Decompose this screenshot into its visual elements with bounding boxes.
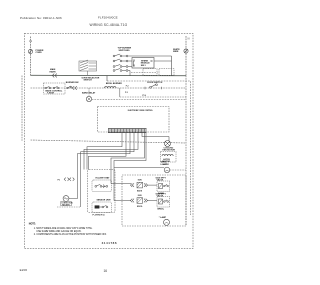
wire igniter row 2 to valve [148, 200, 158, 202]
wire L1 drop [30, 37, 32, 76]
right oven enclosure dashed [122, 175, 186, 226]
rail tick b [161, 87, 163, 89]
wire right link y97 [120, 96, 186, 98]
svg-text:P6: P6 [58, 180, 60, 182]
svg-text:T-STAT: T-STAT [47, 92, 55, 95]
svg-text:WIRING SC-48/4A-T1G: WIRING SC-48/4A-T1G [90, 23, 128, 27]
svg-text:BROIL: BROIL [137, 206, 143, 208]
wire fan motor drop [168, 137, 170, 141]
wire below spark module [131, 72, 158, 74]
svg-text:IGN: IGN [138, 180, 142, 182]
svg-text:N: N [188, 38, 190, 41]
svg-text:E206: E206 [20, 268, 28, 272]
electronic oven control box [98, 107, 170, 133]
wire burner row link [133, 61, 135, 67]
svg-text:IGN: IGN [138, 195, 142, 197]
svg-text:VALVE: VALVE [157, 194, 164, 197]
bake valve contacts [164, 184, 169, 186]
oven selector switch S1 [79, 60, 97, 76]
relay box A [143, 69, 157, 76]
wire spark module to neutral [154, 60, 172, 62]
svg-text:FAN MTR: FAN MTR [62, 204, 70, 207]
igniter row 1 connector left [131, 183, 135, 187]
svg-text:P-3 RTD P-4: P-3 RTD P-4 [93, 213, 106, 216]
igniter row 2 wire [114, 200, 131, 202]
svg-text:BURNER SW: BURNER SW [66, 82, 79, 84]
svg-text:FAN MOTOR: FAN MOTOR [163, 149, 176, 152]
wire main bus L1 [31, 74, 187, 77]
upper sub box thermostat [92, 180, 112, 192]
thermostat contacts [95, 184, 108, 188]
svg-text:DOOR SWITCH: DOOR SWITCH [147, 82, 163, 84]
svg-text:16: 16 [104, 269, 108, 273]
strain relief L1 [28, 49, 32, 53]
svg-text:SM-1: SM-1 [141, 65, 147, 67]
oven control dashed box [44, 83, 66, 94]
svg-text:Publication No: 09012-1-N06: Publication No: 09012-1-N06 [20, 16, 62, 20]
wire N drop [185, 36, 187, 76]
left appliance enclosure dashed [88, 170, 116, 213]
wire oven light feed [114, 167, 164, 169]
harness wire D [89, 133, 127, 170]
sensor resistor dark [95, 205, 100, 208]
cooling fan motor M2 [165, 141, 171, 147]
strain relief N [184, 49, 188, 53]
connector comb of EOC [108, 129, 147, 133]
svg-text:FLF2040/0CE: FLF2040/0CE [98, 15, 118, 19]
svg-text:P-5: P-5 [125, 92, 128, 94]
label convection fan motor [61, 201, 72, 205]
wire rail to clock motor [88, 88, 90, 96]
igniter row 2 connector left [131, 199, 135, 203]
sensor contacts [99, 205, 108, 208]
harness wire A [84, 133, 138, 170]
svg-text:WIRE: WIRE [173, 51, 179, 53]
wire broil drop [119, 88, 121, 97]
svg-text:HI-LIMIT STAT: HI-LIMIT STAT [96, 176, 111, 179]
wire long dashed rail y141 [31, 140, 187, 143]
wire neutral rail lower [185, 76, 187, 227]
svg-text:BROIL: BROIL [158, 209, 165, 211]
relay box B [159, 69, 174, 76]
clock motor M1 [86, 96, 91, 101]
svg-text:HARN: HARN [50, 70, 57, 73]
svg-text:SENSOR UNIT: SENSOR UNIT [97, 200, 112, 202]
connector P1 on bus [52, 74, 56, 78]
broil valve coil [159, 199, 163, 204]
harness wire E [87, 133, 122, 170]
svg-text:ELECTRONIC OVEN CONTROL: ELECTRONIC OVEN CONTROL [128, 110, 153, 112]
svg-text:* LAMP: * LAMP [159, 216, 167, 219]
igniter row 2 connector right [144, 199, 148, 203]
rail tick a [144, 87, 146, 89]
wire row1 drop to bus [171, 56, 173, 76]
svg-text:SWITCH: SWITCH [84, 80, 93, 82]
svg-text:USE SAME WIRE AND GAUGE OR EQU: USE SAME WIRE AND GAUGE OR EQUIV. [36, 230, 81, 233]
broil switch contact [67, 86, 72, 89]
wire igniter row 1 to valve [148, 184, 158, 186]
top burner switch row 3 [113, 65, 132, 68]
connector P2 on rail [72, 86, 76, 90]
igniter row 2 body [137, 198, 143, 204]
svg-text:2. COMPONENTS ARE IN AN ACTIV: 2. COMPONENTS ARE IN AN ACTIVE POSITION … [34, 233, 107, 236]
harness wire to igniter rail [114, 133, 146, 201]
wire oven light to neutral [170, 169, 186, 171]
svg-text:LIGHT: LIGHT [161, 164, 168, 166]
heater element coil [162, 155, 173, 156]
bake valve coil [159, 184, 163, 189]
igniter row 1 body [137, 182, 143, 188]
top burner switch row 2 [113, 59, 132, 62]
svg-text:1. MOST WIRES ARE 18 AWG 300V: 1. MOST WIRES ARE 18 AWG 300V 105°C WIRE… [34, 227, 93, 230]
top burner switch row 4 [113, 69, 130, 76]
spark module U1 [132, 58, 154, 69]
harness wire B [81, 133, 134, 207]
harness wire C to convection motor [69, 133, 130, 199]
svg-text:NOTE:: NOTE: [29, 223, 36, 225]
door switch blade [150, 84, 158, 88]
broil valve dashed box [157, 197, 170, 208]
svg-text:P-2: P-2 [126, 86, 129, 88]
svg-text:CORD: CORD [36, 52, 43, 54]
motor enclosure bottom dash [57, 206, 80, 208]
harness wire to cooling fan [142, 133, 169, 137]
lower sub box sensor [92, 202, 112, 213]
oven light L2 [164, 167, 170, 173]
convection fan motor M3 [63, 196, 69, 202]
wire left rail lower [21, 76, 23, 141]
wire clock motor to neutral [92, 99, 186, 101]
harness wire to oven light rail [111, 133, 145, 184]
broil valve contacts [164, 200, 169, 202]
wire dashed rail y81 [107, 81, 191, 215]
bake valve dashed box [157, 181, 170, 192]
svg-text:3141786: 3141786 [102, 241, 118, 245]
top burner switch row 1 [113, 54, 171, 57]
svg-text:BAKE: BAKE [137, 190, 143, 193]
oven vent heater dashed box [161, 152, 177, 163]
wire bus junction drop [106, 76, 108, 82]
schematic border frame [25, 33, 194, 248]
oven control contacts [45, 86, 59, 89]
wire rail y88 [31, 87, 187, 89]
svg-text:BROIL BURNER: BROIL BURNER [106, 83, 122, 85]
igniter row 1 connector right [144, 183, 148, 187]
igniter row 1 wire [111, 183, 131, 185]
svg-text:SWITCHES: SWITCHES [119, 50, 131, 52]
broil burner coil [105, 87, 117, 88]
oven lamp bottom [164, 219, 170, 225]
